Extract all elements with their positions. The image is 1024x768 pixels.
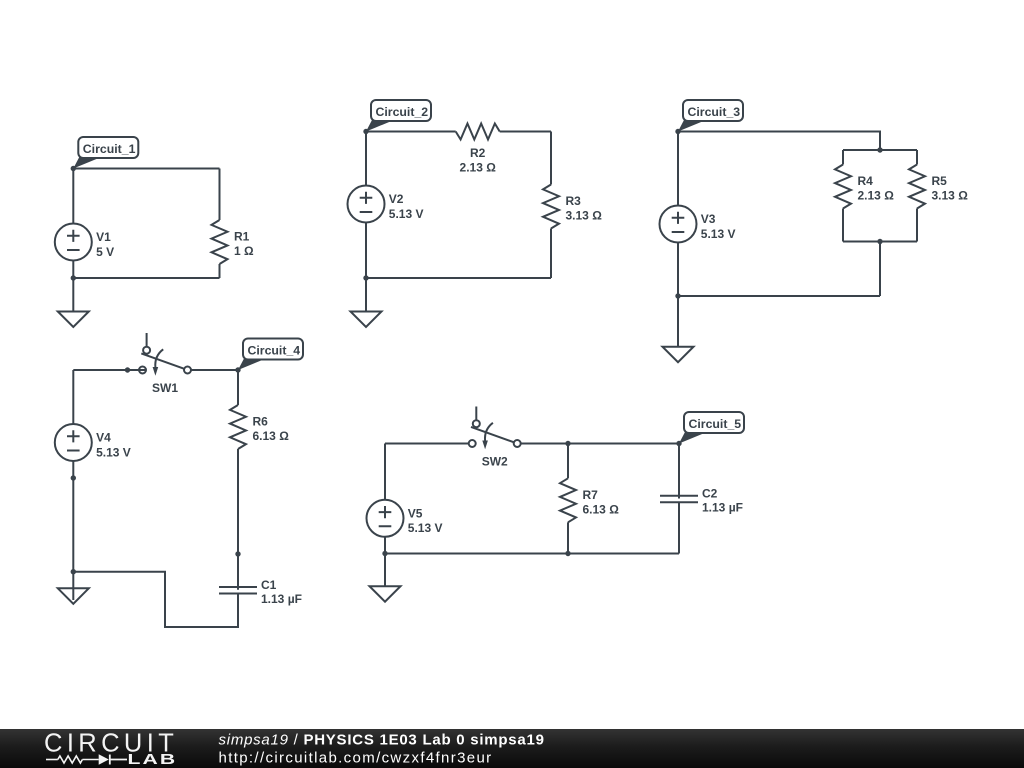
wire	[365, 223, 367, 279]
svg-text:2.13 Ω: 2.13 Ω	[460, 161, 497, 175]
wire	[385, 443, 469, 445]
switch SW2	[469, 407, 521, 450]
svg-text:R7: R7	[583, 488, 599, 502]
wire	[384, 537, 386, 554]
node label Circuit_5	[679, 412, 744, 444]
wire	[500, 131, 551, 133]
svg-text:Circuit_3: Circuit_3	[688, 105, 741, 119]
junction	[71, 475, 76, 480]
junction	[877, 239, 882, 244]
voltage source V1	[55, 224, 92, 261]
resistor R5	[909, 165, 925, 209]
wire	[73, 572, 238, 627]
wire	[72, 461, 74, 572]
svg-text:3.13 Ω: 3.13 Ω	[566, 209, 603, 223]
junction	[71, 166, 76, 171]
svg-text:V3: V3	[701, 212, 716, 226]
junction	[235, 367, 240, 372]
label V5 value	[408, 506, 443, 535]
wire	[678, 132, 880, 151]
junction	[125, 367, 130, 372]
svg-text:2.13 Ω: 2.13 Ω	[858, 189, 895, 203]
svg-text:Circuit_5: Circuit_5	[689, 417, 742, 431]
node label Circuit_1	[73, 137, 138, 169]
svg-text:R5: R5	[932, 174, 948, 188]
resistor R7	[560, 478, 576, 522]
wire	[567, 444, 569, 479]
svg-text:6.13 Ω: 6.13 Ω	[253, 429, 290, 443]
svg-text:3.13 Ω: 3.13 Ω	[932, 189, 969, 203]
ground	[351, 278, 382, 327]
svg-text:R4: R4	[858, 174, 874, 188]
ground	[58, 572, 89, 604]
wire	[678, 502, 680, 553]
svg-text:5.13 V: 5.13 V	[96, 445, 131, 459]
wire	[550, 132, 552, 185]
wire	[191, 369, 238, 371]
svg-text:5.13 V: 5.13 V	[408, 521, 443, 535]
svg-text:http://circuitlab.com/cwzxf4fn: http://circuitlab.com/cwzxf4fnr3eur	[219, 750, 493, 767]
svg-text:6.13 Ω: 6.13 Ω	[583, 502, 620, 516]
junction	[675, 293, 680, 298]
label R1 value	[234, 230, 254, 259]
label R2 value	[460, 146, 497, 175]
wire	[385, 553, 679, 555]
wire	[237, 449, 239, 590]
voltage source V3	[660, 206, 697, 243]
svg-text:5.13 V: 5.13 V	[389, 207, 424, 221]
svg-text:C1: C1	[261, 578, 277, 592]
svg-text:simpsa19 / PHYSICS 1E03 Lab 0: simpsa19 / PHYSICS 1E03 Lab 0 simpsa19	[219, 732, 545, 749]
wire	[916, 150, 918, 165]
svg-text:V4: V4	[96, 431, 111, 445]
resistor R2	[456, 124, 500, 140]
svg-text:1.13 µF: 1.13 µF	[261, 592, 302, 606]
wire	[219, 264, 221, 278]
wire	[219, 169, 221, 221]
capacitor C1	[219, 587, 257, 594]
wire	[842, 150, 844, 165]
svg-text:5 V: 5 V	[96, 245, 114, 259]
junction	[71, 569, 76, 574]
svg-text:1 Ω: 1 Ω	[234, 244, 254, 258]
wire	[73, 277, 219, 279]
wire	[843, 149, 917, 151]
junction	[363, 275, 368, 280]
junction	[676, 441, 681, 446]
voltage source V2	[348, 186, 385, 223]
wire	[237, 370, 239, 405]
svg-text:V2: V2	[389, 192, 404, 206]
svg-text:R6: R6	[253, 415, 269, 429]
svg-text:C2: C2	[702, 487, 718, 501]
svg-text:SW2: SW2	[482, 455, 508, 469]
junction	[877, 147, 882, 152]
junction	[565, 551, 570, 556]
svg-text:R3: R3	[566, 194, 582, 208]
logo resistor-diode glyph	[46, 754, 127, 764]
capacitor C2	[660, 496, 698, 503]
node label Circuit_2	[366, 100, 431, 132]
label V1 value	[96, 230, 114, 259]
label R5 value	[932, 174, 969, 203]
wire	[365, 132, 367, 186]
wire	[72, 588, 74, 600]
wire	[521, 443, 679, 445]
junction	[363, 129, 368, 134]
wire	[73, 369, 146, 371]
resistor R6	[230, 405, 246, 449]
wire	[678, 444, 680, 499]
node label Circuit_3	[678, 100, 743, 132]
wire	[677, 243, 679, 297]
svg-text:1.13 µF: 1.13 µF	[702, 501, 743, 515]
svg-text:R1: R1	[234, 230, 250, 244]
svg-text:SW1: SW1	[152, 381, 178, 395]
resistor R4	[835, 165, 851, 209]
junction	[71, 275, 76, 280]
junction	[382, 551, 387, 556]
ground	[663, 296, 694, 362]
junction	[675, 129, 680, 134]
svg-text:V5: V5	[408, 506, 423, 520]
label V2 value	[389, 192, 424, 221]
resistor R1	[212, 220, 228, 264]
wire	[677, 132, 679, 206]
svg-text:LAB: LAB	[128, 750, 178, 767]
label R4 value	[858, 174, 895, 203]
wire	[366, 131, 456, 133]
svg-text:V1: V1	[96, 230, 111, 244]
label V3 value	[701, 212, 736, 241]
voltage source V5	[367, 500, 404, 537]
footer bar	[0, 729, 1024, 768]
wire	[384, 444, 386, 500]
wire	[73, 168, 219, 170]
wire	[72, 261, 74, 279]
svg-text:Circuit_1: Circuit_1	[83, 142, 136, 156]
wire	[72, 169, 74, 224]
junction	[565, 441, 570, 446]
wire	[366, 277, 551, 279]
node label Circuit_4	[238, 339, 303, 371]
svg-text:Circuit_2: Circuit_2	[376, 105, 429, 119]
ground	[370, 554, 401, 602]
label C1 value	[261, 578, 302, 606]
wire	[843, 241, 917, 243]
wire	[550, 229, 552, 279]
label C2 value	[702, 487, 743, 515]
ground	[58, 278, 89, 327]
svg-text:5.13 V: 5.13 V	[701, 227, 736, 241]
label R6 value	[253, 415, 290, 444]
wire	[916, 209, 918, 242]
wire	[842, 209, 844, 242]
wire	[678, 295, 880, 297]
label V4 value	[96, 431, 131, 460]
label R7 value	[583, 488, 620, 517]
switch SW1	[139, 333, 191, 376]
label R3 value	[566, 194, 603, 223]
resistor R3	[543, 185, 559, 229]
wire	[879, 242, 881, 297]
svg-text:Circuit_4: Circuit_4	[248, 344, 301, 358]
junction	[235, 551, 240, 556]
svg-text:R2: R2	[470, 146, 486, 160]
wire	[567, 522, 569, 553]
voltage source V4	[55, 424, 92, 461]
wire	[72, 370, 74, 424]
